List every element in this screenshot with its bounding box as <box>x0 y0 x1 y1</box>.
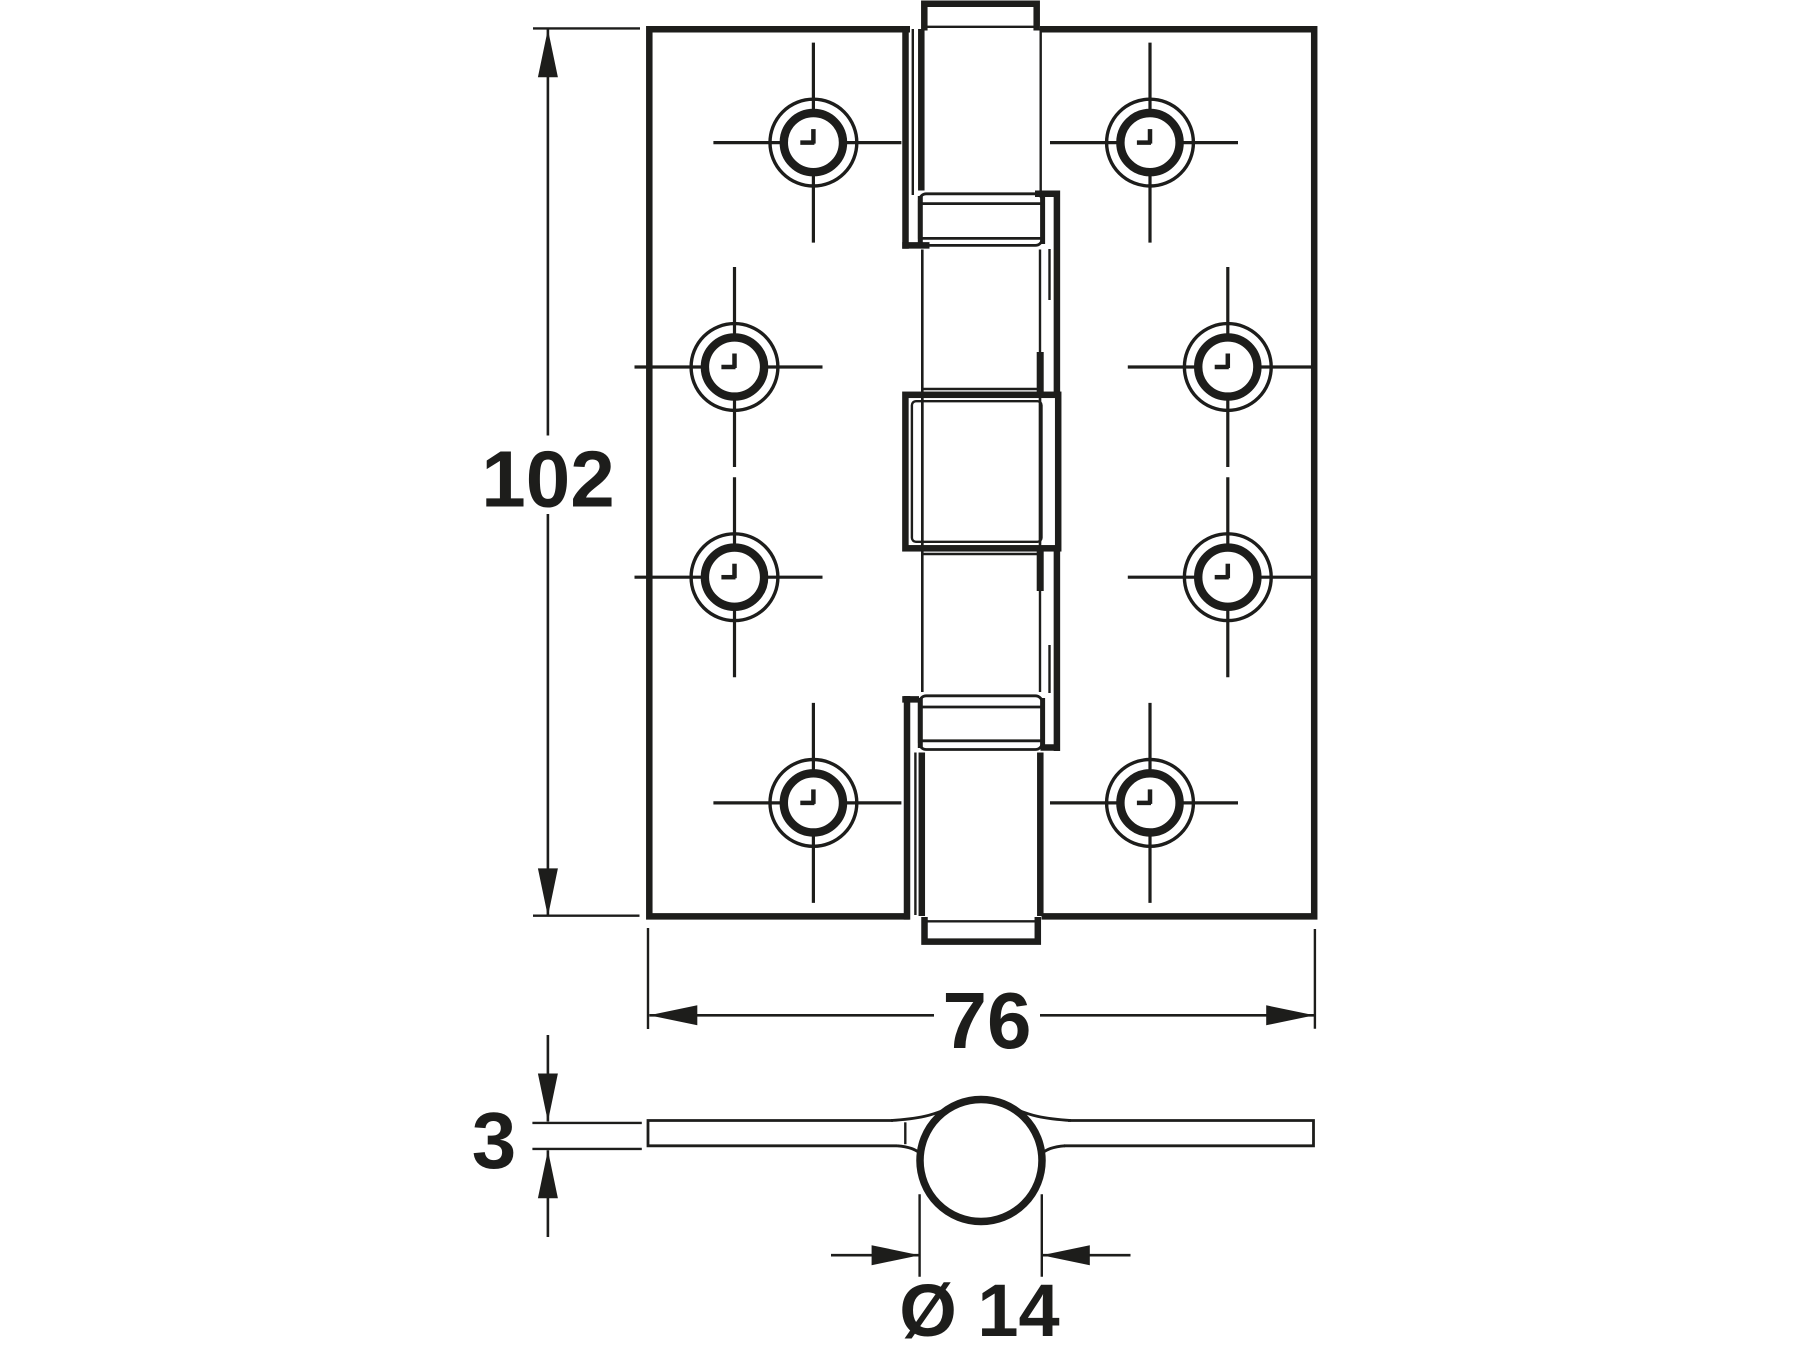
svg-text:Ø 14: Ø 14 <box>899 1269 1059 1350</box>
svg-text:102: 102 <box>481 435 614 524</box>
svg-text:3: 3 <box>472 1096 517 1185</box>
svg-text:76: 76 <box>943 976 1032 1065</box>
